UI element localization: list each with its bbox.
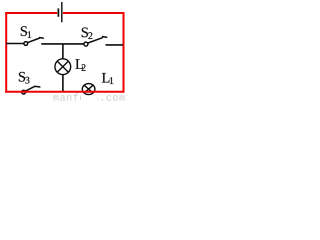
wire left edge — [5, 12, 7, 93]
watermark manfen5.com — [53, 93, 124, 100]
lamp L1 — [82, 84, 95, 95]
label S3 — [19, 72, 30, 84]
label L2 — [75, 59, 85, 70]
lamp L1 white backing — [81, 80, 98, 102]
switch S2 — [84, 37, 107, 47]
lamp L2 — [55, 59, 71, 75]
wire top-left battery lead — [5, 12, 57, 14]
wire right edge — [123, 12, 125, 93]
label L1 — [102, 73, 113, 84]
wire L2 to bottom edge — [62, 75, 64, 91]
wire junction down to L2 — [62, 44, 64, 59]
wire middle S1 to S2 — [41, 43, 84, 45]
label S2 — [82, 28, 93, 39]
wire bottom edge — [5, 91, 124, 93]
wire top-right battery lead — [63, 12, 125, 14]
wire S2 to right edge — [106, 44, 124, 46]
battery positive plate (long) — [61, 2, 63, 22]
switch S3 — [22, 86, 41, 94]
battery negative plate (short) — [57, 8, 59, 16]
switch S1 — [24, 38, 44, 46]
wire middle-left to S1 — [6, 43, 24, 45]
label S1 — [21, 26, 31, 38]
